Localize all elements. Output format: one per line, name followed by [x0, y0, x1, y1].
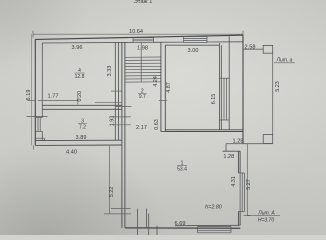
- dimension 1.93 ticks on wall B: [112, 117, 130, 125]
- svg-text:4.31: 4.31: [231, 176, 237, 187]
- wall: divider between room 4 and room 3, double line: [42, 105, 122, 109]
- svg-text:4.40: 4.40: [66, 150, 77, 156]
- wall: building top, outer line: [35, 35, 243, 39]
- wall: kitchen west wall: [164, 45, 166, 131]
- svg-text:9.7: 9.7: [139, 94, 146, 100]
- svg-text:3.89: 3.89: [76, 135, 87, 141]
- wall: stair hall east wall: [160, 42, 162, 131]
- svg-text:0.20: 0.20: [77, 91, 83, 102]
- porch bottom edge: [226, 143, 273, 145]
- svg-text:3.33: 3.33: [107, 66, 113, 77]
- svg-text:3.96: 3.96: [72, 45, 83, 51]
- svg-text:12.8: 12.8: [75, 74, 85, 80]
- svg-text:2.58: 2.58: [245, 44, 256, 50]
- dimension line 5.27: [244, 144, 251, 216]
- window W4 in hall east wall: [238, 173, 244, 212]
- svg-text:5.22: 5.22: [109, 187, 115, 198]
- room 3 label: 3 / 7.2: [78, 119, 87, 131]
- svg-text:h=2.80: h=2.80: [205, 204, 222, 210]
- svg-text:5.27: 5.27: [246, 179, 252, 190]
- left dimension line: [31, 34, 33, 145]
- label "Лит. А / Н=3.70" bottom right: [247, 210, 280, 223]
- stairs: centre division line: [140, 42, 142, 82]
- svg-text:1.98: 1.98: [137, 46, 148, 52]
- stairs: treads: [125, 57, 161, 82]
- ticks for 4.40: [33, 145, 35, 149]
- wall: main hall east wall (lower), double line: [238, 151, 240, 225]
- room 1 label: 1 / 53.4: [177, 161, 187, 173]
- room 2 label: 2 / 9.7: [138, 89, 147, 100]
- svg-text:53.4: 53.4: [177, 166, 187, 172]
- svg-text:1.77: 1.77: [48, 93, 59, 99]
- window W3 in bottom wall: [198, 226, 231, 232]
- svg-text:4.87: 4.87: [166, 82, 172, 93]
- wall H2 step: [223, 150, 241, 152]
- porch top edge and dimension 2.58: [243, 48, 263, 50]
- step: notch verticals: [225, 144, 227, 152]
- entrance door jambs and porch below bottom wall: [137, 209, 157, 235]
- wall: left exterior, outer line: [34, 39, 36, 145]
- tick across wall B at stair hall: [115, 105, 132, 107]
- svg-text:6.15: 6.15: [211, 94, 217, 105]
- wall: building east exterior (upper): [242, 35, 244, 144]
- wall stub bottom cap: [161, 131, 165, 133]
- svg-text:2.17: 2.17: [136, 125, 147, 131]
- wall: building top, inner line segments: [42, 42, 243, 43]
- dimension line 5.22: [104, 146, 131, 214]
- wall: left exterior, inner line: [41, 43, 43, 141]
- window W1 in top wall (above stair hall): [133, 38, 153, 43]
- svg-text:1.28: 1.28: [223, 154, 234, 160]
- svg-text:0.63: 0.63: [154, 119, 160, 130]
- kitchen top edge: [165, 44, 219, 46]
- porch east edge: [272, 53, 274, 134]
- wall: main hall bottom exterior, double line: [125, 227, 240, 229]
- tick for 3.33: [111, 90, 121, 92]
- room 4 label: 4 / 12.8: [75, 68, 86, 80]
- svg-text:3.00: 3.00: [188, 48, 199, 54]
- svg-text:7.2: 7.2: [79, 125, 86, 131]
- wall: bottom of left block (room 3 south), double line: [35, 140, 122, 145]
- svg-text:6.19: 6.19: [26, 90, 32, 101]
- window W2 in top wall (above kitchen): [184, 37, 208, 43]
- tick on left wall: [28, 100, 36, 102]
- porch post, bottom: [263, 135, 273, 144]
- svg-text:Этаж 1: Этаж 1: [134, 0, 153, 5]
- dimension line 10.64 (overall width, top): [33, 31, 243, 38]
- svg-text:5.23: 5.23: [275, 81, 281, 92]
- window W5 in left wall: [27, 117, 48, 141]
- wall: kitchen bottom / notch, double line: [165, 130, 243, 132]
- porch post, top: [263, 45, 273, 53]
- svg-text:6.69: 6.69: [175, 221, 186, 227]
- svg-text:1.93: 1.93: [109, 116, 115, 127]
- svg-text:1.28: 1.28: [233, 139, 244, 145]
- svg-text:4.24: 4.24: [153, 76, 159, 87]
- wall B: long west wall of stair hall and main hall, double line: [122, 42, 125, 228]
- wall: kitchen east wall, double line: [219, 36, 229, 130]
- window in kitchen east wall: [219, 78, 229, 120]
- short line left of wall A: [95, 102, 121, 104]
- tick at stub top: [159, 99, 167, 101]
- svg-text:10.64: 10.64: [129, 29, 143, 35]
- wall A: right wall of rooms 4 and 3, double line: [115, 43, 118, 141]
- svg-text:Н=3.70: Н=3.70: [258, 218, 274, 224]
